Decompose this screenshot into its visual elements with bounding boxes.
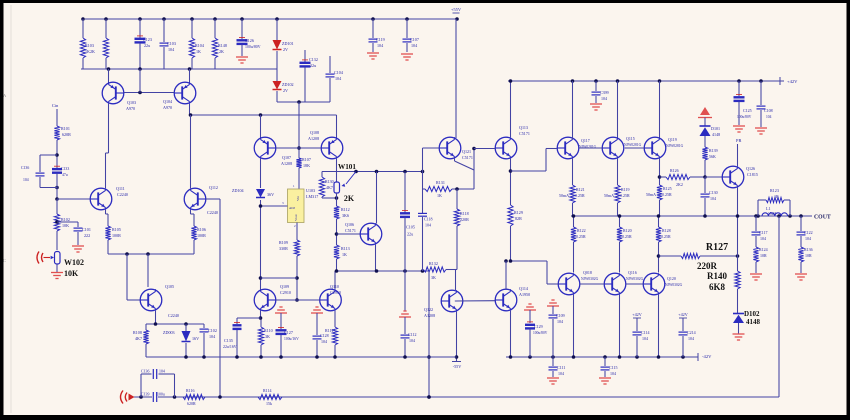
svg-text:10K: 10K — [62, 223, 69, 228]
svg-text:104: 104 — [601, 96, 607, 101]
svg-text:R136: R136 — [804, 247, 813, 252]
svg-text:Q105: Q105 — [165, 284, 174, 289]
svg-text:0.25R: 0.25R — [620, 193, 630, 198]
svg-text:18K: 18K — [303, 163, 310, 168]
svg-text:104: 104 — [409, 338, 415, 343]
svg-text:C126: C126 — [245, 38, 254, 43]
svg-text:A1208: A1208 — [308, 136, 319, 141]
svg-text:C117: C117 — [759, 230, 768, 235]
svg-text:0.25R: 0.25R — [622, 234, 632, 239]
svg-text:C104: C104 — [334, 70, 343, 75]
svg-text:R120: R120 — [623, 228, 632, 233]
svg-text:R139: R139 — [709, 148, 718, 153]
svg-text:620R: 620R — [187, 401, 196, 406]
svg-text:C102: C102 — [208, 328, 217, 333]
svg-text:C122: C122 — [804, 230, 813, 235]
svg-text:4148: 4148 — [746, 318, 761, 326]
svg-text:R128: R128 — [662, 228, 671, 233]
svg-text:C139: C139 — [141, 393, 149, 397]
svg-text:+55V: +55V — [451, 7, 462, 12]
svg-text:R105: R105 — [112, 227, 121, 232]
svg-text:Q119: Q119 — [668, 137, 677, 142]
svg-text:Q018: Q018 — [583, 270, 592, 275]
svg-text:COUT: COUT — [814, 215, 831, 221]
svg-text:104: 104 — [209, 334, 215, 339]
svg-text:222: 222 — [84, 233, 90, 238]
svg-text:100u/80V: 100u/80V — [533, 331, 548, 335]
svg-text:R101: R101 — [61, 126, 70, 131]
svg-text:3K: 3K — [265, 334, 270, 339]
svg-text:R124: R124 — [759, 247, 768, 252]
svg-text:104: 104 — [557, 319, 563, 324]
svg-text:R126: R126 — [670, 168, 679, 173]
svg-text:+42V: +42V — [787, 79, 798, 84]
svg-text:104: 104 — [642, 336, 648, 341]
svg-text:ZD102: ZD102 — [282, 82, 294, 87]
svg-text:47u: 47u — [62, 173, 68, 177]
svg-text:R103: R103 — [85, 43, 94, 48]
svg-text:36V: 36V — [267, 192, 274, 197]
svg-text:Vin: Vin — [296, 196, 300, 201]
svg-text:104: 104 — [335, 76, 341, 81]
svg-text:R125: R125 — [663, 186, 672, 191]
svg-text:3K6: 3K6 — [342, 213, 349, 218]
svg-text:R108: R108 — [133, 330, 142, 335]
svg-text:C132: C132 — [309, 57, 318, 62]
svg-text:104: 104 — [411, 43, 417, 48]
svg-text:-42V: -42V — [702, 354, 712, 359]
svg-text:Q104: Q104 — [163, 99, 172, 104]
svg-text:R119: R119 — [621, 187, 630, 192]
svg-text:R114: R114 — [263, 388, 272, 393]
svg-text:C2910: C2910 — [280, 290, 291, 295]
svg-text:+42V: +42V — [632, 312, 642, 317]
svg-text:C399: C399 — [600, 90, 609, 95]
svg-text:U103: U103 — [306, 188, 315, 193]
svg-text:1K: 1K — [437, 193, 442, 198]
svg-text:Q114: Q114 — [519, 286, 528, 291]
svg-text:R107: R107 — [302, 157, 311, 162]
svg-text:82R: 82R — [515, 216, 522, 221]
svg-text:Cin: Cin — [52, 103, 59, 108]
svg-text:ZD101: ZD101 — [282, 41, 294, 46]
svg-text:R109: R109 — [279, 240, 288, 245]
svg-text:R118: R118 — [460, 211, 469, 216]
svg-text:22u: 22u — [407, 232, 413, 237]
svg-text:R132: R132 — [429, 261, 438, 266]
svg-text:NJW0302G: NJW0302G — [626, 277, 644, 281]
svg-text:2K2: 2K2 — [676, 182, 683, 187]
svg-text:C108: C108 — [764, 108, 773, 113]
svg-text:Q126: Q126 — [746, 166, 755, 171]
svg-text:22u: 22u — [310, 63, 316, 68]
svg-text:C105: C105 — [406, 225, 415, 230]
svg-text:Q107: Q107 — [282, 155, 291, 160]
svg-text:C133: C133 — [61, 167, 69, 171]
svg-text:0.25R: 0.25R — [576, 234, 586, 239]
svg-text:D102: D102 — [744, 310, 760, 318]
svg-text:LM317: LM317 — [306, 194, 318, 199]
svg-text:NJW0281G: NJW0281G — [624, 143, 642, 147]
svg-text:R148: R148 — [218, 43, 227, 48]
svg-text:C135: C135 — [224, 338, 233, 343]
svg-text:C107: C107 — [410, 37, 419, 42]
svg-text:A970: A970 — [163, 105, 172, 110]
svg-text:100R: 100R — [197, 233, 206, 238]
svg-text:C111: C111 — [557, 365, 565, 370]
svg-text:104: 104 — [425, 223, 431, 228]
svg-text:0.25R: 0.25R — [575, 193, 585, 198]
svg-text:R131: R131 — [436, 180, 445, 185]
svg-text:C128: C128 — [320, 333, 329, 338]
svg-text:6K8: 6K8 — [709, 282, 726, 292]
svg-text:C112: C112 — [408, 332, 417, 337]
svg-text:L1: L1 — [766, 206, 770, 211]
svg-text:R111: R111 — [325, 328, 334, 333]
svg-text:2K: 2K — [219, 49, 224, 54]
svg-text:22u: 22u — [144, 43, 150, 48]
svg-text:104: 104 — [805, 236, 811, 241]
svg-text:104: 104 — [688, 336, 694, 341]
svg-text:-55V: -55V — [453, 364, 462, 369]
svg-text:104: 104 — [377, 43, 383, 48]
svg-text:C1815: C1815 — [747, 172, 758, 177]
svg-text:1K2K: 1K2K — [85, 49, 95, 54]
svg-text:Q106: Q106 — [345, 222, 354, 227]
svg-text:104: 104 — [760, 236, 766, 241]
svg-text:C5171: C5171 — [519, 131, 530, 136]
svg-text:100u/80V: 100u/80V — [245, 45, 261, 49]
svg-text:C136: C136 — [21, 166, 29, 170]
svg-text:C214: C214 — [687, 330, 696, 335]
svg-text:R106: R106 — [197, 227, 206, 232]
svg-text:Q103: Q103 — [127, 100, 136, 105]
svg-text:R130: R130 — [325, 179, 334, 184]
svg-text:C101: C101 — [82, 227, 91, 232]
svg-text:0.25R: 0.25R — [662, 192, 672, 197]
svg-text:C115: C115 — [609, 365, 618, 370]
svg-text:R140: R140 — [707, 271, 727, 281]
svg-text:C2240: C2240 — [117, 192, 128, 197]
svg-text:C109: C109 — [556, 313, 565, 318]
svg-text:R112: R112 — [341, 207, 350, 212]
svg-text:10K: 10K — [64, 269, 79, 278]
svg-text:Q111: Q111 — [116, 186, 125, 191]
svg-text:104: 104 — [766, 115, 772, 119]
svg-text:Vout: Vout — [294, 214, 298, 221]
svg-text:C125: C125 — [743, 108, 752, 113]
svg-text:4K7: 4K7 — [135, 336, 142, 341]
svg-text:104: 104 — [159, 370, 165, 374]
svg-text:C103: C103 — [167, 41, 176, 46]
svg-text:50mA: 50mA — [604, 193, 614, 198]
svg-text:22u/16V: 22u/16V — [223, 345, 237, 349]
svg-text:Q113: Q113 — [519, 125, 528, 130]
svg-text:C2910: C2910 — [330, 290, 341, 295]
svg-text:A1208: A1208 — [424, 313, 435, 318]
svg-text:104: 104 — [168, 47, 174, 52]
svg-text:10R: 10R — [805, 253, 812, 258]
svg-text:330R: 330R — [279, 246, 288, 251]
svg-text:C129: C129 — [534, 324, 543, 329]
svg-text:ADJ: ADJ — [289, 206, 296, 210]
svg-text:C2240: C2240 — [207, 210, 218, 215]
svg-text:16V: 16V — [192, 336, 199, 341]
svg-text:Q112: Q112 — [209, 185, 218, 190]
svg-text:W101: W101 — [338, 163, 356, 171]
svg-text:C127: C127 — [284, 330, 293, 335]
svg-text:A970: A970 — [126, 106, 135, 111]
svg-text:100R: 100R — [112, 233, 121, 238]
svg-text:4K7: 4K7 — [326, 185, 333, 190]
svg-text:NJW0302G: NJW0302G — [581, 277, 599, 281]
svg-text:+42V: +42V — [678, 312, 688, 317]
svg-text:56K: 56K — [709, 154, 716, 159]
svg-text:220R: 220R — [460, 217, 469, 222]
svg-text:100u: 100u — [157, 393, 165, 397]
svg-text:D101: D101 — [711, 126, 720, 131]
svg-text:50mA: 50mA — [559, 193, 569, 198]
svg-text:104: 104 — [610, 371, 616, 376]
svg-text:620R: 620R — [62, 132, 71, 137]
svg-text:50mA: 50mA — [646, 192, 656, 197]
svg-text:15uH: 15uH — [768, 212, 776, 216]
svg-text:104: 104 — [558, 371, 564, 376]
svg-text:C119: C119 — [376, 37, 385, 42]
svg-text:Q115: Q115 — [626, 136, 635, 141]
svg-text:1K: 1K — [196, 49, 201, 54]
svg-text:Q117: Q117 — [581, 138, 590, 143]
svg-text:R102: R102 — [61, 217, 70, 222]
svg-text:220R: 220R — [697, 261, 718, 271]
svg-text:R121: R121 — [576, 187, 585, 192]
svg-text:R104: R104 — [195, 43, 204, 48]
svg-text:Q122: Q122 — [424, 307, 433, 312]
svg-text:PR: PR — [736, 138, 741, 143]
svg-text:C123: C123 — [143, 37, 152, 42]
svg-text:C118: C118 — [424, 217, 433, 222]
svg-text:Q108: Q108 — [310, 130, 319, 135]
svg-text:104: 104 — [710, 196, 716, 201]
svg-text:2K: 2K — [344, 194, 355, 203]
svg-text:4148: 4148 — [712, 132, 720, 137]
svg-text:100u/16V: 100u/16V — [284, 337, 299, 341]
svg-text:1K: 1K — [342, 252, 347, 257]
svg-text:Q109: Q109 — [280, 284, 289, 289]
svg-text:104: 104 — [321, 339, 327, 344]
svg-text:ZD003: ZD003 — [163, 330, 175, 335]
svg-text:C5171: C5171 — [345, 228, 356, 233]
svg-text:R127: R127 — [706, 242, 728, 253]
svg-text:10R: 10R — [760, 253, 767, 258]
svg-text:104: 104 — [23, 178, 29, 182]
svg-text:2V: 2V — [283, 47, 288, 52]
svg-text:C2240: C2240 — [168, 313, 179, 318]
svg-text:Q120: Q120 — [667, 276, 676, 281]
svg-text:C114: C114 — [641, 330, 650, 335]
svg-text:R116: R116 — [186, 388, 195, 393]
svg-text:1R: 1R — [774, 194, 779, 199]
svg-text:C5171: C5171 — [462, 155, 473, 160]
svg-text:C130: C130 — [709, 190, 718, 195]
svg-text:Q121: Q121 — [462, 149, 471, 154]
svg-text:2V: 2V — [283, 88, 288, 93]
svg-text:0.25R: 0.25R — [661, 234, 671, 239]
svg-text:R123: R123 — [770, 188, 779, 193]
svg-text:NJW0302G: NJW0302G — [665, 283, 683, 287]
svg-text:C136: C136 — [141, 370, 149, 374]
svg-text:15k: 15k — [266, 401, 272, 406]
svg-text:R113: R113 — [341, 246, 350, 251]
svg-text:R129: R129 — [514, 210, 523, 215]
svg-text:W102: W102 — [64, 258, 84, 267]
svg-text:A1208: A1208 — [281, 161, 292, 166]
svg-text:Q116: Q116 — [628, 270, 637, 275]
svg-text:100u/80V: 100u/80V — [737, 115, 752, 119]
svg-text:ZD104: ZD104 — [232, 188, 244, 193]
svg-text:NJW0281G: NJW0281G — [666, 144, 684, 148]
svg-text:3K: 3K — [431, 275, 436, 280]
svg-text:R110: R110 — [264, 328, 273, 333]
svg-text:R122: R122 — [577, 228, 586, 233]
svg-text:A1950: A1950 — [519, 292, 530, 297]
